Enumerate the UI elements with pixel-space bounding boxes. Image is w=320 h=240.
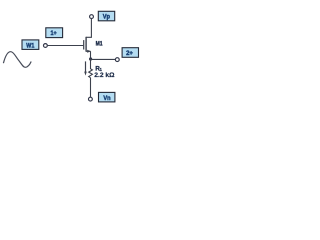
node circle 2+ [115, 58, 119, 62]
node circle Vp [90, 15, 94, 19]
svg-text:Vn: Vn [103, 95, 110, 102]
transistor M1 [84, 37, 91, 53]
wire junction to resistor [90, 59, 92, 69]
terminal box Vn [99, 92, 115, 102]
current arrow [84, 61, 87, 75]
label M1 [96, 40, 103, 47]
svg-text:W1: W1 [26, 43, 34, 50]
wire to 2+ [91, 58, 116, 60]
wire source [90, 51, 92, 59]
wire gate [48, 45, 84, 47]
sine waveform symbol [3, 52, 31, 68]
node circle W1/1+ input [44, 44, 48, 48]
terminal box Vp [98, 11, 114, 20]
svg-text:1+: 1+ [51, 30, 57, 37]
terminal box 1+ [46, 28, 63, 38]
terminal box W1 [22, 40, 39, 50]
label R1 [95, 65, 102, 72]
wire drain [86, 19, 91, 38]
wire resistor to Vn [90, 78, 92, 97]
terminal box 2+ [122, 48, 138, 58]
resistor R1 zigzag [89, 69, 93, 78]
label 2.2 kOhm [94, 72, 115, 79]
svg-text:2+: 2+ [126, 50, 133, 57]
svg-text:Vp: Vp [103, 13, 110, 20]
svg-text:M1: M1 [96, 40, 103, 47]
node circle Vn [89, 97, 93, 101]
junction dot [89, 57, 92, 60]
svg-text:2.2 kΩ: 2.2 kΩ [94, 72, 115, 79]
